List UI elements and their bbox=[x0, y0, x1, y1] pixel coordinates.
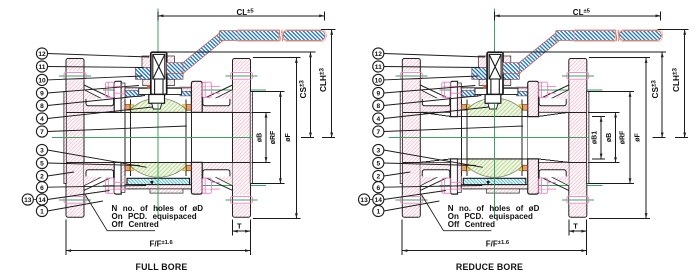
body bottom wall bbox=[125, 185, 191, 189]
handle grip outline bbox=[574, 29, 662, 41]
balloon 5 leader bbox=[384, 163, 476, 166]
gland rings (pink) bbox=[143, 79, 151, 85]
svg-text:Off Centred: Off Centred bbox=[448, 220, 495, 229]
handle break lines bbox=[278, 30, 281, 41]
centrelines overdraw bbox=[52, 104, 253, 217]
left cap wall lower bbox=[84, 162, 114, 185]
left end flange plate bbox=[66, 59, 84, 218]
packing-nut wings (pink) bbox=[142, 56, 151, 68]
right end flange plate bbox=[233, 59, 251, 218]
svg-text:øF: øF bbox=[285, 133, 292, 142]
svg-text:8: 8 bbox=[40, 103, 44, 110]
balloon 6 bbox=[36, 182, 47, 193]
phantom bolt-circle lines bbox=[106, 86, 212, 189]
right cap wall lower bbox=[202, 162, 232, 185]
balloon 4 bbox=[373, 113, 384, 124]
svg-text:9: 9 bbox=[40, 91, 44, 98]
CS extension line bbox=[167, 51, 316, 53]
dimension phiRF (right) bbox=[588, 91, 634, 93]
balloon 11 leader bbox=[384, 67, 480, 68]
CLH extension line (right) bbox=[657, 29, 688, 31]
balloon 8 bbox=[36, 100, 47, 111]
balloon 9 bbox=[373, 87, 384, 98]
svg-text:4: 4 bbox=[376, 116, 380, 123]
packing-nut wings (pink) bbox=[478, 56, 487, 68]
svg-text:2: 2 bbox=[376, 174, 380, 181]
bore edges bbox=[66, 112, 250, 162]
stem housing bbox=[151, 52, 167, 94]
balloon 11 leader bbox=[47, 67, 143, 68]
note leader (off-centred holes) bbox=[85, 195, 155, 231]
mounting pad bbox=[139, 88, 182, 94]
balloon 1 leader bbox=[47, 201, 103, 211]
svg-text:11: 11 bbox=[375, 64, 382, 71]
dimension CS (left) bbox=[301, 52, 314, 138]
svg-text:øF: øF bbox=[635, 133, 642, 142]
svg-text:øRF: øRF bbox=[270, 130, 277, 144]
left bolt pocket upper bbox=[86, 98, 114, 106]
dimension CLH (right) bbox=[675, 30, 688, 138]
balloon 3 leader bbox=[384, 150, 483, 167]
left end flange plate bbox=[402, 59, 420, 218]
svg-text:3: 3 bbox=[376, 148, 380, 155]
right bolt pocket upper bbox=[203, 98, 230, 106]
svg-text:Off Centred: Off Centred bbox=[112, 220, 159, 229]
seat inserts (orange) bbox=[462, 105, 528, 171]
handle bar segment 1 bbox=[220, 31, 279, 41]
balloon 6 leader bbox=[47, 186, 146, 188]
right bolt pocket lower bbox=[203, 170, 230, 178]
svg-text:FULL BORE: FULL BORE bbox=[136, 262, 188, 272]
flange bolts bbox=[400, 72, 422, 79]
balloon 14 leader bbox=[47, 191, 109, 200]
balloon 13 bbox=[359, 194, 370, 205]
seat wedges (yellow) bbox=[131, 105, 186, 171]
left bolt pocket lower bbox=[422, 170, 450, 178]
seat inserts (orange) bbox=[125, 105, 191, 171]
handle bar segment 2 bbox=[619, 31, 661, 41]
balloon 8 leader bbox=[47, 96, 145, 106]
balloon 1 bbox=[36, 205, 47, 216]
svg-text:2: 2 bbox=[40, 174, 44, 181]
dimension phiF (left) bbox=[253, 57, 301, 59]
svg-text:øB: øB bbox=[606, 133, 613, 142]
right raised face bbox=[250, 92, 252, 184]
handle hub (blue) bbox=[472, 68, 487, 80]
balloon 5 bbox=[36, 157, 47, 168]
svg-text:REDUCE BORE: REDUCE BORE bbox=[456, 262, 523, 272]
right raised face bbox=[587, 92, 589, 184]
balloon 13 link bbox=[370, 199, 373, 201]
flange bolt holes bbox=[67, 71, 251, 204]
seat ring faces bbox=[125, 100, 191, 177]
left cap wall upper bbox=[420, 90, 450, 113]
svg-text:6: 6 bbox=[376, 185, 380, 192]
packing rings (orange) bbox=[483, 86, 486, 89]
dimension CS (right) bbox=[653, 52, 666, 138]
svg-text:5: 5 bbox=[40, 161, 44, 168]
body top wall bbox=[461, 88, 527, 95]
svg-text:T: T bbox=[573, 222, 578, 231]
balloon 10 bbox=[36, 74, 47, 85]
balloon 10 bbox=[373, 74, 384, 85]
balloon 11 bbox=[36, 61, 47, 72]
balloon 6 bbox=[373, 182, 384, 193]
gland wedges (blue) bbox=[462, 91, 478, 97]
CLH extension line bbox=[321, 29, 336, 31]
handle lower stub bbox=[503, 63, 520, 74]
bottom seat strip (cyan) bbox=[127, 178, 190, 184]
balloon 7 bbox=[373, 126, 384, 137]
right cap wall lower bbox=[539, 162, 569, 185]
svg-text:11: 11 bbox=[39, 64, 46, 71]
right end flange plate bbox=[569, 59, 587, 218]
balloon 9 leader bbox=[384, 86, 476, 94]
svg-text:12: 12 bbox=[38, 51, 46, 58]
balloon 7 leader bbox=[47, 126, 186, 132]
flange bolt holes bbox=[403, 71, 587, 204]
balloon 4 leader bbox=[47, 107, 152, 119]
balloon 2 leader bbox=[47, 172, 74, 176]
reduce-bore valve centrelines bbox=[388, 9, 602, 217]
svg-text:12: 12 bbox=[375, 51, 383, 58]
off-centred drain marker bbox=[150, 181, 153, 184]
left bolt pocket lower bbox=[86, 170, 114, 178]
stem (X-section) bbox=[489, 54, 501, 94]
packing rings (orange) bbox=[147, 86, 150, 89]
right bolt pocket upper bbox=[539, 98, 566, 106]
left cap wall lower bbox=[420, 162, 450, 185]
balloon 12 leader bbox=[47, 54, 149, 58]
balloon 1 bbox=[373, 205, 384, 216]
seat wedges (yellow) bbox=[467, 105, 522, 171]
stem base bbox=[485, 95, 501, 104]
svg-text:4: 4 bbox=[40, 116, 44, 123]
balloon 14 leader bbox=[384, 191, 446, 200]
body joint bolts bbox=[400, 72, 589, 203]
handle lower stub bbox=[167, 63, 184, 74]
balloon 5 bbox=[373, 157, 384, 168]
svg-text:øRF: øRF bbox=[620, 130, 627, 144]
balloon 9 leader bbox=[47, 86, 139, 94]
balloon 12 leader bbox=[384, 54, 486, 58]
svg-text:14: 14 bbox=[38, 197, 46, 204]
body joint bolts bbox=[64, 72, 253, 203]
handle break lines bbox=[615, 30, 618, 41]
svg-text:6: 6 bbox=[40, 185, 44, 192]
balloon 13 link bbox=[33, 199, 36, 201]
svg-text:9: 9 bbox=[376, 91, 380, 98]
dimension phiRF (left) bbox=[252, 91, 285, 93]
balloon 3 leader bbox=[47, 150, 146, 167]
flange bolts bbox=[64, 72, 86, 79]
balloon 14 bbox=[36, 194, 47, 205]
balloon 2 leader bbox=[384, 172, 411, 176]
balloon 7 leader bbox=[384, 126, 523, 132]
balloon 3 bbox=[373, 144, 384, 155]
left body side wall bbox=[121, 83, 125, 112]
handle bar segment 2 bbox=[283, 31, 325, 41]
left body side wall bbox=[458, 83, 462, 117]
left raised face bbox=[64, 92, 66, 184]
dimension F/F (left) bbox=[65, 220, 67, 255]
svg-text:13: 13 bbox=[24, 197, 32, 204]
seat ring faces bbox=[461, 100, 527, 177]
balloon 12 bbox=[36, 48, 47, 59]
svg-text:14: 14 bbox=[375, 197, 383, 204]
balloon 9 bbox=[36, 87, 47, 98]
mounting pad bbox=[475, 88, 518, 94]
svg-text:13: 13 bbox=[360, 197, 368, 204]
svg-text:T: T bbox=[237, 222, 242, 231]
right joint lug (pink) bbox=[528, 81, 539, 116]
svg-text:8: 8 bbox=[376, 103, 380, 110]
bore edges bbox=[402, 112, 586, 162]
balloon 2 bbox=[36, 170, 47, 181]
balloon 8 bbox=[373, 100, 384, 111]
body bottom wall bbox=[461, 185, 527, 189]
svg-text:3: 3 bbox=[40, 148, 44, 155]
svg-text:øB: øB bbox=[257, 133, 264, 142]
gland wedges (blue) bbox=[125, 91, 141, 97]
svg-text:10: 10 bbox=[375, 78, 383, 85]
dimension phiB (right) bbox=[588, 111, 620, 113]
balloon 2 bbox=[373, 170, 384, 181]
balloon 12 bbox=[373, 48, 384, 59]
centrelines overdraw bbox=[388, 104, 589, 217]
balloon 4 bbox=[36, 113, 47, 124]
svg-text:5: 5 bbox=[376, 161, 380, 168]
balloon 11 bbox=[373, 61, 384, 72]
dimension T (left) bbox=[232, 220, 234, 235]
left cap wall upper bbox=[84, 90, 114, 113]
drain boss bbox=[486, 189, 519, 193]
right joint lug (pink) bbox=[191, 81, 202, 112]
full-bore valve centrelines bbox=[52, 9, 266, 217]
right cap wall upper bbox=[539, 90, 569, 113]
dimension CL (right) bbox=[495, 11, 661, 20]
left raised face bbox=[400, 92, 402, 184]
phantom bolt-circle lines bbox=[442, 86, 548, 189]
handle bar segment 1 bbox=[556, 31, 615, 41]
left joint ring (white, bolt hole section) bbox=[114, 81, 121, 112]
svg-text:10: 10 bbox=[38, 78, 46, 85]
dimension T (right) bbox=[568, 220, 570, 235]
svg-text:1: 1 bbox=[376, 209, 380, 216]
svg-text:7: 7 bbox=[40, 129, 44, 136]
svg-text:øB1: øB1 bbox=[592, 131, 599, 144]
stem (X-section) bbox=[153, 54, 165, 94]
note leader (off-centred holes) bbox=[422, 195, 492, 231]
stem base bbox=[149, 95, 165, 104]
balloon 14 bbox=[373, 194, 384, 205]
left bolt pocket upper bbox=[422, 98, 450, 106]
balloon 4 leader bbox=[384, 107, 489, 119]
balloon 10 leader bbox=[47, 76, 142, 80]
balloon 3 bbox=[36, 144, 47, 155]
handle diagonal arm bbox=[183, 31, 223, 74]
bottom seat strip (cyan) bbox=[463, 178, 526, 184]
CS extension line (right) bbox=[503, 51, 666, 53]
drain boss bbox=[150, 189, 183, 193]
handle hub (blue) bbox=[136, 68, 151, 80]
dimension CLH (left) bbox=[322, 30, 335, 138]
svg-text:7: 7 bbox=[376, 129, 380, 136]
right bolt pocket lower bbox=[539, 170, 566, 178]
body top wall bbox=[125, 88, 191, 95]
svg-text:1: 1 bbox=[40, 209, 44, 216]
balloon 5 leader bbox=[47, 163, 139, 166]
dimension phiF (right) bbox=[589, 57, 650, 59]
balloon 8 leader bbox=[384, 96, 482, 106]
dimension phiB (left) bbox=[252, 111, 271, 113]
balloon 7 bbox=[36, 126, 47, 137]
stem housing bbox=[487, 52, 503, 94]
handle diagonal arm bbox=[519, 31, 559, 74]
balloon 10 leader bbox=[384, 76, 479, 80]
right cap wall upper bbox=[202, 90, 232, 113]
off-centred drain marker bbox=[487, 181, 490, 184]
gland rings (pink) bbox=[479, 79, 487, 85]
balloon 13 bbox=[22, 194, 33, 205]
balloon 1 leader bbox=[384, 201, 440, 211]
left joint ring (white, bolt hole section) bbox=[451, 81, 458, 116]
dimension phiB1 (right) bbox=[592, 116, 605, 118]
dimension F/F (right) bbox=[401, 220, 403, 255]
balloon 6 leader bbox=[384, 186, 483, 188]
dimension CL (left) bbox=[158, 11, 324, 20]
handle grip outline bbox=[238, 29, 326, 41]
